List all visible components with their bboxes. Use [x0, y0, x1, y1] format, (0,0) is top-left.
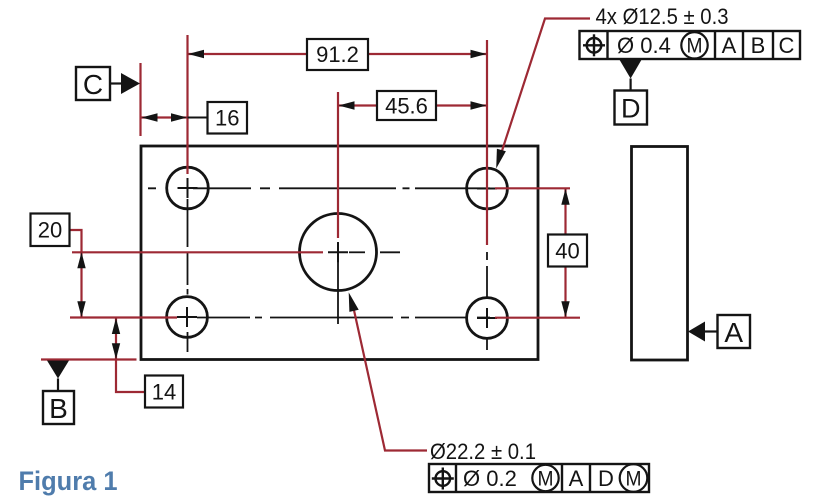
svg-text:A: A [569, 466, 584, 491]
extension line right hole column red [486, 40, 488, 245]
extension line bottom edge red (datum B) [41, 358, 137, 360]
dimension 14 line [115, 318, 117, 360]
extension line center hole row red (left) [72, 251, 323, 253]
modifier M circle top FCF [681, 32, 707, 58]
hole top-right [467, 168, 508, 209]
label box 45.6 [377, 91, 436, 120]
svg-text:A: A [724, 317, 743, 348]
svg-text:M: M [626, 468, 642, 491]
svg-text:D: D [598, 466, 614, 491]
centerline row through bottom holes [197, 317, 490, 319]
dimension 40 line upper [564, 189, 566, 235]
svg-text:20: 20 [38, 218, 62, 243]
arrowhead leader bottom [349, 292, 359, 312]
datum B box [43, 391, 74, 424]
arrowhead 45.6 right [471, 101, 487, 109]
leader to top-right hole (4x holes note) [499, 19, 590, 161]
label box 91.2 [307, 39, 368, 70]
svg-text:14: 14 [152, 380, 176, 405]
connector 16 box (black) [188, 117, 208, 119]
arrowhead 14 bottom [112, 343, 120, 359]
svg-text:B: B [751, 33, 766, 58]
datum C box [76, 67, 110, 100]
arrowhead 91.2 right [471, 50, 487, 58]
svg-text:91.2: 91.2 [316, 42, 359, 67]
svg-text:A: A [722, 33, 737, 58]
hole bottom-right [467, 298, 508, 339]
centerline segments right of center hole [349, 251, 365, 253]
center mark top-left hole [178, 178, 198, 198]
feature control frame top [580, 31, 801, 59]
extension line left edge (datum C) red [139, 63, 141, 136]
feature control frame bottom [429, 464, 649, 492]
datum D triangle [620, 60, 642, 79]
center mark top-right hole [477, 179, 497, 199]
centerline column center hole below [337, 242, 339, 324]
svg-text:M: M [538, 468, 554, 491]
dimension 40 line lower [564, 267, 566, 318]
center mark bottom-right hole [477, 308, 497, 328]
plate front view outline [141, 146, 538, 360]
arrowhead 20 bottom [77, 301, 85, 317]
svg-text:45.6: 45.6 [385, 94, 428, 119]
position symbol top FCF [583, 34, 605, 56]
svg-text:Ø 0.4: Ø 0.4 [617, 33, 671, 58]
arrowhead 45.6 left [339, 101, 355, 109]
modifier M circle bottom FCF [532, 465, 558, 491]
extension line bottom hole row red right [495, 317, 580, 319]
modifier M circle bottom FCF cell4 [620, 464, 648, 492]
svg-text:4x Ø12.5 ± 0.3: 4x Ø12.5 ± 0.3 [596, 4, 729, 29]
side view outline [632, 147, 688, 361]
label box 20 [31, 214, 70, 247]
datum C stem [110, 82, 122, 84]
position symbol bottom FCF [432, 468, 454, 490]
svg-text:Ø22.2 ± 0.1: Ø22.2 ± 0.1 [430, 439, 536, 464]
centerline column left holes [187, 199, 189, 352]
arrowhead 16 left [142, 113, 158, 121]
hole bottom-left [167, 297, 208, 338]
center mark center hole [328, 242, 348, 262]
dimension 20 line [80, 252, 82, 318]
dimension 91.2 line [188, 53, 307, 55]
arrowhead 40 bottom [561, 301, 569, 317]
arrowhead 16 right [171, 113, 187, 121]
dimension 45.6 line [339, 104, 378, 106]
arrowhead leader top [496, 149, 506, 169]
label box 16 [208, 102, 248, 134]
svg-text:C: C [83, 69, 103, 100]
label box 40 [548, 235, 587, 267]
extension line left hole column red [186, 35, 188, 174]
svg-text:16: 16 [215, 106, 239, 131]
svg-text:C: C [779, 33, 795, 58]
label box 14 [145, 376, 183, 408]
dimension 14 connector to box [116, 360, 145, 393]
centerline row through top holes [148, 187, 490, 189]
center mark bottom-left hole [177, 307, 197, 327]
centerline column right holes [486, 252, 488, 350]
svg-text:D: D [621, 94, 641, 124]
arrowhead 40 top [561, 189, 569, 205]
center hole [300, 214, 377, 291]
datum B stem [57, 379, 59, 392]
extension line top hole row red right [495, 187, 570, 189]
svg-text:M: M [687, 35, 703, 58]
extension line bottom hole row red left [70, 316, 177, 318]
datum D box [615, 91, 648, 125]
leader to center hole [354, 308, 428, 451]
datum C triangle [121, 73, 140, 94]
svg-text:Figura 1: Figura 1 [19, 466, 118, 496]
arrowhead 91.2 left [188, 50, 204, 58]
svg-text:40: 40 [555, 239, 579, 264]
datum A triangle [688, 322, 705, 342]
arrowhead 14 top [112, 318, 120, 334]
datum D stem [629, 79, 631, 92]
datum A box [718, 315, 751, 348]
extension line center hole column red [337, 92, 339, 238]
dimension 20 connector from box [70, 230, 82, 252]
datum B triangle [47, 361, 69, 379]
arrowhead 20 top [77, 252, 85, 268]
svg-text:B: B [49, 393, 68, 424]
svg-text:Ø 0.2: Ø 0.2 [463, 466, 517, 491]
datum A stem [705, 330, 718, 332]
dimension 16 line [142, 116, 188, 118]
hole top-left [167, 167, 209, 209]
